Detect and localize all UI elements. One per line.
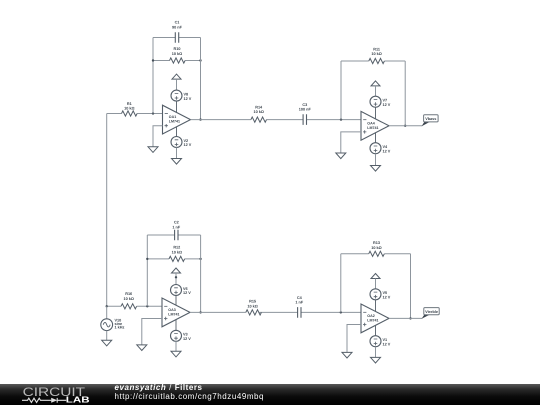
svg-text:R11: R11 (373, 48, 380, 52)
svg-text:LM741: LM741 (169, 120, 180, 124)
wire OA3 output to R15 and C4 (190, 311, 361, 313)
wire OA3 inverting input net (107, 305, 162, 307)
capacitor C1 (175, 32, 178, 43)
svg-text:12 V: 12 V (383, 342, 391, 346)
ground below V10 (102, 340, 112, 346)
flag pointer Vtreble (422, 315, 430, 319)
wire R13 branch (341, 253, 411, 255)
output flag Vtreble (424, 308, 439, 315)
resistor R1 (122, 111, 138, 116)
resistor R16 (121, 304, 137, 309)
resistor R10 (170, 58, 186, 63)
wire OA4 output to flag (389, 125, 422, 127)
svg-text:10 kΩ: 10 kΩ (172, 52, 182, 56)
svg-text:C2: C2 (174, 221, 179, 225)
signal source V10 sine (101, 319, 113, 331)
svg-text:Vtreble: Vtreble (425, 310, 438, 314)
node junction at OA2 output (409, 317, 411, 319)
wire feedback right vertical OA3 (200, 235, 202, 312)
svg-text:12 V: 12 V (183, 291, 191, 295)
wire V2 to ground (176, 148, 178, 159)
svg-text:10 kΩ: 10 kΩ (247, 304, 257, 308)
voltage source V5 (370, 289, 381, 300)
ground below V2 (172, 159, 182, 165)
wire OA3 non-inverting input to ground (142, 319, 162, 345)
footer bar (0, 384, 540, 405)
node junction R12 right (199, 258, 201, 260)
svg-text:10 kΩ: 10 kΩ (172, 250, 182, 254)
voltage source V4 (370, 143, 381, 154)
node junction at OA3 output (199, 311, 201, 313)
op-amp OA4 LM741 (361, 107, 389, 143)
node junction at OA4 output (404, 125, 406, 127)
svg-text:12 V: 12 V (383, 149, 391, 153)
ground below V1 (371, 357, 381, 363)
capacitor C2 (175, 230, 178, 241)
svg-text:10 kΩ: 10 kΩ (253, 110, 263, 114)
wire OA2 non-inverting input to ground (347, 325, 361, 353)
power flag VCC above V5 (371, 274, 380, 279)
svg-text:R10: R10 (174, 47, 181, 51)
resistor R11 (369, 58, 385, 63)
wire OA4 non-inverting input to ground (341, 132, 361, 153)
wire OA1 non-inverting input to ground (153, 126, 163, 147)
svg-text:OA4: OA4 (367, 121, 374, 125)
op-amp OA1 LM741 (163, 101, 191, 136)
CircuitLab logo (21, 384, 113, 405)
svg-text:1 nF: 1 nF (172, 225, 180, 229)
svg-text:100 nF: 100 nF (299, 108, 312, 112)
flag pointer Vbass (422, 122, 430, 127)
wire R11 branch (341, 60, 405, 62)
svg-text:C3: C3 (302, 103, 307, 107)
wire feedback left vertical OA2 (340, 254, 342, 313)
svg-text:C1: C1 (175, 20, 180, 24)
wire input riser from V10 node up to R1 (106, 114, 108, 307)
power flag VCC above V7 (371, 81, 380, 86)
node junction at OA1 output (199, 118, 201, 120)
svg-text:R12: R12 (173, 246, 180, 250)
node junction at OA2 inverting input (340, 311, 342, 313)
svg-text:10 kΩ: 10 kΩ (371, 246, 381, 250)
svg-text:12 V: 12 V (184, 97, 192, 101)
svg-text:R15: R15 (249, 300, 256, 304)
node junction at OA1 inverting input (152, 112, 154, 114)
footer text (115, 384, 265, 401)
svg-text:12 V: 12 V (383, 296, 391, 300)
op-amp OA2 LM741 (361, 300, 389, 336)
svg-text:LM741: LM741 (168, 313, 179, 317)
node junction R10 left (152, 59, 154, 61)
wire V1 to ground (375, 347, 377, 358)
resistor R15 (246, 310, 262, 315)
svg-text:OA1: OA1 (169, 115, 176, 119)
svg-text:12 V: 12 V (383, 103, 391, 107)
svg-text:10 kΩ: 10 kΩ (371, 52, 381, 56)
wire OA1 inverting input net (107, 113, 163, 115)
ground at OA3 non-inverting input (137, 345, 147, 351)
wire feedback top C1 branch (153, 37, 201, 39)
op-amp OA3 LM741 (162, 296, 190, 331)
power flag VCC above V8 (172, 74, 181, 79)
resistor R14 (251, 117, 267, 122)
output flag Vbass (424, 115, 439, 122)
ground below V4 (371, 166, 381, 172)
wire R12 branch (147, 258, 200, 260)
svg-text:10 kΩ: 10 kΩ (123, 297, 133, 301)
voltage source V6 (171, 285, 182, 296)
svg-text:Vbass: Vbass (425, 117, 436, 121)
svg-text:OA2: OA2 (367, 314, 374, 318)
wire feedback left vertical OA4 (340, 61, 342, 120)
wire feedback right vertical OA2 (410, 254, 412, 319)
svg-text:1 nF: 1 nF (295, 301, 303, 305)
resistor R13 (369, 251, 385, 256)
wire OA1 output to R14 and C3 (191, 119, 362, 121)
wire feedback left vertical OA3 (146, 235, 148, 306)
resistor R12 (169, 256, 185, 261)
wire feedback right vertical OA1 (200, 38, 202, 120)
ground at OA4 non-inverting input (336, 153, 346, 159)
ground at OA1 non-inverting input (148, 147, 158, 153)
wire feedback left vertical OA1 (152, 38, 154, 114)
wire feedback right vertical OA4 (404, 61, 406, 126)
capacitor C3 (303, 114, 306, 125)
svg-text:C4: C4 (297, 296, 303, 300)
wire OA2 output to flag (389, 317, 422, 319)
node junction at OA3 inverting input (146, 305, 148, 307)
wire R10 branch (153, 60, 201, 62)
svg-text:R13: R13 (373, 241, 380, 245)
power flag VCC above V6 (172, 268, 181, 273)
voltage source V7 (370, 96, 381, 107)
svg-text:OA3: OA3 (168, 308, 175, 312)
svg-text:LM741: LM741 (367, 126, 378, 130)
ground below V3 (171, 351, 181, 357)
node junction V10 top (106, 305, 108, 307)
svg-text:10 kΩ: 10 kΩ (124, 107, 134, 111)
svg-text:R14: R14 (255, 106, 263, 110)
node junction on V6 stem (175, 276, 177, 278)
node junction R10 right (199, 59, 201, 61)
wire V10 to ground (106, 331, 108, 341)
svg-text:1 kHz: 1 kHz (115, 326, 125, 330)
svg-text:12 V: 12 V (184, 143, 192, 147)
ground at OA2 non-inverting input (342, 352, 352, 358)
node junction R12 left (146, 258, 148, 260)
voltage source V8 (171, 90, 182, 101)
voltage source V2 (171, 137, 182, 148)
wire V3 to ground (175, 341, 177, 351)
svg-text:90 nF: 90 nF (172, 26, 183, 30)
node junction at OA4 inverting input (340, 118, 342, 120)
svg-text:12 V: 12 V (183, 337, 191, 341)
wire V10 stem (106, 306, 108, 319)
voltage source V1 (370, 336, 381, 347)
svg-text:LM741: LM741 (367, 319, 378, 323)
wire feedback top C2 branch (147, 234, 200, 236)
voltage source V3 (171, 330, 182, 341)
wire V4 to ground (375, 154, 377, 166)
svg-text:R16: R16 (125, 292, 132, 296)
svg-text:R1: R1 (127, 102, 132, 106)
capacitor C4 (298, 307, 301, 318)
svg-text:LAB: LAB (66, 396, 90, 405)
